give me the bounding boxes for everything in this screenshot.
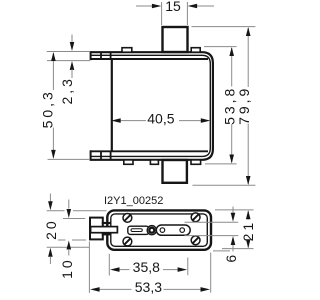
inner body line (111, 214, 208, 246)
dim 50,3 (52, 53, 54, 158)
left refs (47, 211, 107, 248)
svg-text:21: 21 (240, 220, 256, 242)
top rail + body silhouette (outer contour with rounded right corners) (91, 52, 213, 160)
rail dividers (100, 52, 102, 60)
prong cap (90, 218, 103, 240)
blade bar (91, 227, 118, 233)
right refs (top view) (192, 27, 256, 186)
dim 40,5 (inside body) (119, 120, 203, 122)
dim 21 (247, 211, 249, 248)
svg-text:I2Y1_00252: I2Y1_00252 (104, 195, 163, 207)
dim 2,3 (71, 35, 73, 45)
svg-text:50,3: 50,3 (40, 89, 56, 128)
dim 20 (49, 194, 51, 202)
outer body (107, 210, 211, 249)
rail inner top line (bottom strip) (91, 150, 209, 152)
svg-text:10: 10 (59, 257, 75, 279)
body left edge (111, 60, 113, 152)
prong arms (102, 222, 112, 224)
dim 15 (top) (136, 2, 214, 25)
svg-text:40,5: 40,5 (147, 110, 174, 126)
dim 35,8 (118, 269, 180, 271)
svg-text:2,3: 2,3 (59, 76, 75, 104)
svg-text:53,8: 53,8 (221, 86, 237, 125)
bottom refs (89, 242, 210, 293)
svg-text:53,3: 53,3 (135, 279, 162, 295)
dim 53,3 (98, 288, 203, 290)
dim 53,8 (231, 48, 233, 163)
small contact tabs on top rail (122, 48, 200, 53)
rail left end caps (90, 51, 92, 60)
top blade tab (163, 27, 188, 52)
dim 79,9 (247, 28, 249, 184)
small contact tabs under bottom rail (124, 160, 201, 164)
dim 10 (68, 200, 70, 209)
centre features (128, 226, 149, 234)
dim 6 (232, 207, 234, 214)
bottom blade tab (163, 160, 187, 183)
rail middle lines with inner arcs (91, 55, 211, 156)
right refs (185, 210, 254, 251)
svg-text:20: 20 (43, 218, 59, 240)
svg-text:6: 6 (223, 252, 239, 263)
screws (123, 213, 200, 246)
left refs (47, 52, 90, 160)
rail inner bottom line (top strip) (91, 58, 209, 60)
svg-text:35,8: 35,8 (133, 259, 160, 275)
svg-text:79,9: 79,9 (236, 86, 252, 125)
svg-text:15: 15 (165, 0, 181, 14)
